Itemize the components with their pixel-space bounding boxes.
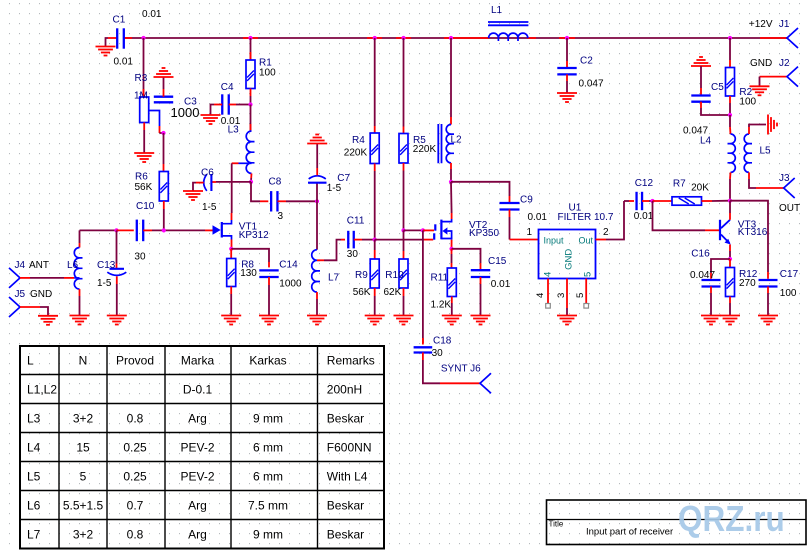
inductor L2 (446, 125, 454, 163)
svg-text:0.01: 0.01 (491, 279, 511, 290)
svg-text:0.01: 0.01 (114, 57, 134, 68)
wire L7 bottom (316, 292, 318, 299)
capacitor C14 (259, 269, 278, 271)
svg-text:C14: C14 (279, 260, 298, 271)
svg-text:KP312: KP312 (239, 230, 269, 241)
node C5-R2-L4 (728, 113, 732, 117)
svg-text:56K: 56K (135, 182, 153, 193)
transistor VT1 arrow (213, 225, 221, 234)
capacitor C13 (trimmer) (110, 268, 125, 270)
node R4 bus (373, 36, 377, 40)
svg-text:100: 100 (739, 97, 756, 108)
svg-text:0.01: 0.01 (634, 211, 654, 222)
svg-text:With L4: With L4 (327, 469, 368, 483)
capacitor C1 (116, 28, 118, 48)
connector J2 sym (787, 67, 798, 87)
node VT2 source (449, 247, 453, 251)
wire source to C14 (231, 249, 269, 262)
svg-text:Provod: Provod (116, 353, 154, 367)
connector J1 (787, 28, 798, 48)
svg-text:30: 30 (134, 252, 146, 263)
svg-text:4: 4 (535, 293, 546, 298)
wire C4 right (229, 104, 236, 106)
svg-text:R9: R9 (355, 270, 368, 281)
wire R2 top (729, 38, 731, 60)
svg-text:100: 100 (780, 288, 797, 299)
capacitor C11 (347, 231, 349, 249)
ground C6 (183, 191, 203, 200)
svg-text:KP350: KP350 (469, 228, 499, 239)
capacitor C16 (702, 279, 721, 281)
wire C6 left (196, 182, 204, 184)
wire R9 bottom (374, 288, 376, 296)
svg-text:0.8: 0.8 (127, 527, 144, 541)
svg-text:J4: J4 (15, 260, 26, 271)
svg-text:R4: R4 (352, 135, 365, 146)
transistor VT3 (719, 220, 721, 240)
wire C7 top (316, 168, 318, 175)
capacitor C15 (471, 269, 490, 271)
wire R3 bottom (143, 123, 145, 131)
resistor R9 (370, 259, 379, 288)
svg-text:0.7: 0.7 (127, 498, 144, 512)
svg-text:L4: L4 (700, 136, 712, 147)
node L6-C13-C10 (114, 228, 118, 232)
wire R11 bottom (451, 297, 453, 304)
node R7-L4-C17 (728, 199, 732, 203)
svg-text:1-5: 1-5 (327, 183, 342, 194)
svg-text:C2: C2 (580, 56, 593, 67)
inductor L7 (312, 250, 320, 292)
svg-text:C15: C15 (488, 256, 507, 267)
svg-text:L4: L4 (27, 440, 41, 454)
svg-text:L7: L7 (328, 273, 340, 284)
node C12-R7-VT3 (650, 199, 654, 203)
svg-text:L7: L7 (27, 527, 41, 541)
node R6 gate (162, 228, 166, 232)
capacitor C8 (270, 191, 272, 211)
node R1-C4-L3 (248, 102, 252, 106)
wire R3 top (143, 38, 145, 97)
wire R7 right (702, 200, 713, 202)
wire C3 top (163, 89, 165, 97)
svg-text:C12: C12 (635, 178, 654, 189)
svg-text:L5: L5 (760, 146, 772, 157)
wire C5 top (700, 66, 702, 88)
wire C13 stem (116, 230, 118, 263)
svg-text:Arg: Arg (188, 498, 207, 512)
svg-text:C5: C5 (711, 82, 724, 93)
svg-text:+12V: +12V (749, 19, 773, 30)
svg-text:C18: C18 (433, 336, 452, 347)
wire R11 stem (451, 249, 453, 254)
svg-text:L5: L5 (27, 469, 41, 483)
svg-text:3+2: 3+2 (73, 527, 94, 541)
svg-text:100: 100 (259, 68, 276, 79)
wire R4 top (374, 38, 376, 126)
wire R9 stem (374, 240, 376, 250)
resistor R1 (246, 60, 255, 89)
svg-text:L: L (27, 353, 34, 367)
wire source to C15 (452, 249, 481, 263)
svg-text:R7: R7 (673, 179, 686, 190)
wire R12 stem (729, 259, 731, 268)
svg-text:D-0.1: D-0.1 (183, 382, 213, 396)
wire R1 top (250, 38, 252, 60)
svg-text:R11: R11 (431, 273, 449, 284)
svg-text:J2: J2 (779, 58, 790, 69)
ground R12 (720, 316, 740, 325)
svg-text:J3: J3 (779, 173, 790, 184)
svg-text:C6: C6 (201, 168, 214, 179)
wire R2 bottom (729, 96, 731, 103)
node L2 bus (449, 36, 453, 40)
ground C2 (557, 93, 577, 102)
node VT1 source (229, 247, 233, 251)
ground R10 (394, 316, 414, 325)
ground R11 (442, 316, 462, 325)
svg-text:56K: 56K (353, 287, 371, 298)
svg-text:L1: L1 (491, 5, 503, 16)
wire J4 to L6 (20, 277, 30, 279)
svg-text:Out: Out (579, 236, 594, 246)
capacitor C7 (trimmer) (308, 182, 327, 184)
svg-text:2: 2 (603, 227, 609, 238)
svg-text:0.25: 0.25 (123, 440, 147, 454)
svg-text:L1,L2: L1,L2 (27, 382, 57, 396)
wire L4 bottom (729, 172, 732, 179)
svg-text:0.25: 0.25 (123, 469, 147, 483)
wire L6 top (79, 230, 81, 243)
resistor R5 (399, 134, 408, 164)
connector J6 (480, 373, 491, 393)
svg-text:30: 30 (347, 249, 359, 260)
svg-text:1-5: 1-5 (202, 202, 217, 213)
wire R8 bottom (230, 287, 232, 295)
wire U1 pin1 (510, 239, 539, 241)
resistor R6 (159, 172, 168, 202)
svg-text:R6: R6 (135, 172, 148, 183)
svg-text:GND: GND (750, 58, 772, 69)
wire C10 left lead (117, 229, 134, 231)
wire C10 right (143, 229, 152, 231)
wire C14 bottom (268, 277, 270, 285)
wire G2 lead (423, 229, 434, 231)
wire node to C8 row (251, 182, 260, 201)
table coil data grid (20, 346, 384, 549)
wire VT1 drain (231, 213, 233, 220)
inductor L5 (744, 134, 752, 172)
svg-text:7.5 mm: 7.5 mm (248, 498, 288, 512)
svg-text:20K: 20K (691, 183, 709, 194)
svg-text:L6: L6 (27, 498, 41, 512)
wire VT1 source (231, 240, 233, 249)
svg-text:220K: 220K (344, 148, 368, 159)
wire L7 tap (317, 259, 324, 261)
ground J5 (38, 316, 58, 325)
svg-text:5.5+1.5: 5.5+1.5 (63, 498, 104, 512)
svg-text:0.047: 0.047 (690, 270, 715, 281)
svg-text:KT316: KT316 (738, 227, 768, 238)
capacitor C10 (136, 220, 138, 242)
svg-text:0.047: 0.047 (579, 79, 604, 90)
svg-text:Beskar: Beskar (327, 527, 364, 541)
ground C13 (107, 316, 127, 325)
node L3-C6-C8 (249, 180, 253, 184)
ic U1 box (539, 230, 596, 279)
wire C13 bottom (116, 276, 118, 284)
svg-text:Beskar: Beskar (327, 498, 364, 512)
wire C5 bottom (700, 102, 702, 108)
svg-text:C10: C10 (136, 201, 155, 212)
node R5 bus (401, 36, 405, 40)
wire C8 right (278, 200, 287, 202)
wire J2 (760, 76, 788, 78)
wire gate row L6-C10 (80, 229, 117, 231)
svg-text:Title: Title (549, 520, 564, 529)
svg-text:C8: C8 (269, 177, 282, 188)
svg-text:130: 130 (240, 268, 257, 279)
ground R8 (221, 316, 241, 325)
svg-text:4: 4 (543, 272, 554, 277)
svg-text:Arg: Arg (188, 527, 207, 541)
wire C2 bottom (566, 74, 568, 81)
wire C1 ground stub (108, 37, 117, 39)
wire L6 bottom (79, 289, 81, 296)
inductor L4 (728, 134, 736, 172)
svg-text:Marka: Marka (181, 353, 215, 367)
svg-text:Karkas: Karkas (249, 353, 286, 367)
svg-text:Input: Input (544, 236, 565, 246)
ground L7 (307, 316, 327, 325)
ground C17 (758, 316, 778, 325)
title block box (547, 500, 807, 545)
node C1-R3 (141, 36, 145, 40)
wire C6 row (216, 181, 251, 183)
capacitor C2 (557, 67, 576, 69)
ground C4 (201, 115, 221, 124)
wire R10 stem (403, 230, 405, 251)
resistor R3 (pot) (140, 97, 149, 123)
svg-text:C1: C1 (113, 15, 126, 26)
svg-text:L2: L2 (451, 135, 463, 146)
node VT3 emitter (728, 257, 732, 261)
resistor R7 (672, 197, 702, 205)
wire R5 top (403, 38, 405, 127)
svg-text:N: N (79, 353, 88, 367)
svg-text:L3: L3 (228, 125, 240, 136)
svg-text:270: 270 (739, 278, 756, 289)
svg-text:200nH: 200nH (327, 382, 362, 396)
wire L5 top (748, 127, 750, 134)
ground L6 (70, 316, 90, 325)
svg-text:0.8: 0.8 (127, 411, 144, 425)
ground U1 (557, 316, 577, 325)
wire VT2 source (451, 240, 453, 249)
wire C18 to J6 (422, 353, 424, 361)
connector J5 (9, 297, 20, 317)
svg-text:6 mm: 6 mm (253, 440, 283, 454)
wire node to R6 (163, 133, 165, 164)
svg-text:OUT: OUT (779, 203, 800, 214)
wire C17 bottom (767, 287, 769, 294)
transistor VT2 body (440, 220, 442, 240)
svg-text:QRZ.ru: QRZ.ru (678, 499, 785, 539)
node R2 bus (728, 36, 732, 40)
svg-text:Arg: Arg (188, 411, 207, 425)
wire C2 stem (566, 38, 568, 61)
svg-text:FILTER 10.7: FILTER 10.7 (558, 212, 614, 223)
svg-text:5: 5 (80, 469, 87, 483)
transistor VT1 body (221, 222, 223, 238)
terminal pin4 (546, 304, 551, 309)
svg-text:1000: 1000 (171, 105, 200, 120)
wire R7 left (653, 200, 673, 202)
resistor R2 (726, 68, 735, 97)
wire C15 bottom (480, 277, 482, 284)
svg-text:1-5: 1-5 (97, 278, 112, 289)
node C2 bus (565, 36, 569, 40)
wire R3 wiper to node (159, 126, 161, 133)
wire L4 top (729, 115, 731, 127)
ground J2 (750, 86, 770, 95)
wire U1 pin5 (585, 279, 587, 304)
svg-text:Remarks: Remarks (327, 353, 375, 367)
connector J3 (784, 178, 795, 198)
wire R4 bottom (374, 164, 376, 172)
svg-text:C11: C11 (347, 216, 365, 227)
svg-text:0.01: 0.01 (528, 212, 548, 223)
svg-text:C13: C13 (97, 260, 116, 271)
wire C16 bottom (710, 287, 712, 294)
wire R1 bottom (250, 89, 252, 97)
svg-text:GND: GND (563, 249, 574, 270)
connector J4 (9, 268, 20, 288)
node L2-C9-VT2 (449, 180, 453, 184)
wire VT3 emitter (729, 245, 731, 252)
wire drain stem (450, 182, 453, 213)
inductor L1 (489, 33, 528, 41)
node C3-R6 (161, 131, 165, 135)
wire L7 top (316, 201, 318, 249)
svg-text:1.2K: 1.2K (431, 300, 452, 311)
node G2-C18 (421, 228, 425, 232)
svg-text:F600NN: F600NN (327, 440, 372, 454)
core L2 (438, 124, 441, 163)
wire +12V top bus (125, 37, 788, 39)
capacitor C6 (trimmer) (210, 174, 212, 191)
svg-text:GND: GND (30, 289, 52, 300)
svg-text:L6: L6 (67, 260, 79, 271)
capacitor C4 (221, 94, 223, 114)
svg-text:C9: C9 (520, 195, 533, 206)
wire VT3 collector (729, 213, 731, 220)
wire to C17 (730, 201, 768, 272)
wire L2 top (450, 38, 452, 117)
svg-text:J1: J1 (779, 19, 790, 30)
svg-text:1000: 1000 (279, 279, 302, 290)
ground C1 (96, 47, 116, 56)
svg-text:3: 3 (556, 293, 567, 298)
node C11-R4-R9 (373, 238, 377, 242)
svg-text:1M: 1M (134, 91, 148, 102)
node C7-C8-L7 (315, 199, 319, 203)
capacitor C18 (414, 346, 433, 348)
svg-text:9 mm: 9 mm (253, 527, 283, 541)
wire base row (653, 201, 706, 230)
wire C11 right (354, 239, 362, 241)
capacitor C9 (500, 202, 520, 204)
wire L3 top (250, 105, 252, 132)
terminal pin5 (584, 304, 589, 309)
svg-text:Beskar: Beskar (327, 411, 364, 425)
svg-text:C16: C16 (691, 249, 710, 260)
wire J5 to ground (20, 306, 40, 308)
node R5-R10-G2 (401, 228, 405, 232)
wire emitter to C16 (711, 259, 730, 273)
svg-text:3: 3 (278, 211, 284, 222)
ground C5 (up) (691, 57, 711, 66)
capacitor C12 (635, 192, 637, 210)
svg-text:15: 15 (76, 440, 90, 454)
ground C15 (471, 316, 491, 325)
inductor L3 (246, 131, 254, 173)
wire L3 tap (239, 162, 252, 164)
wire R5 bottom (403, 163, 405, 171)
svg-text:C17: C17 (780, 269, 799, 280)
svg-text:5: 5 (575, 293, 586, 298)
wire C9 bottom (509, 210, 511, 218)
node R1 bus (248, 36, 252, 40)
svg-text:R3: R3 (135, 73, 148, 84)
svg-text:J5: J5 (15, 289, 26, 300)
svg-text:0.01: 0.01 (142, 9, 162, 20)
svg-text:5: 5 (582, 272, 593, 277)
wire gate1 row (375, 239, 424, 241)
capacitor C3 (154, 96, 173, 98)
resistor R8 (227, 259, 236, 287)
svg-text:Input part of receiver: Input part of receiver (586, 527, 673, 538)
svg-text:L3: L3 (27, 411, 41, 425)
wire C4 left (214, 104, 222, 106)
svg-text:PEV-2: PEV-2 (180, 440, 214, 454)
inductor L6 (74, 247, 82, 289)
svg-text:SYNT J6: SYNT J6 (441, 364, 481, 375)
svg-text:C4: C4 (221, 82, 234, 93)
wire R10 bottom (403, 288, 405, 296)
wire C7 stem (316, 183, 318, 201)
wire U1 pin3 (566, 279, 568, 309)
ground L5 (right) (768, 115, 777, 135)
resistor R12 (726, 268, 735, 297)
resistor R4 (370, 133, 379, 164)
ground R3 (134, 153, 154, 162)
svg-text:3+2: 3+2 (73, 411, 94, 425)
wire U1 pin4 (547, 279, 549, 304)
resistor R11 (447, 268, 456, 297)
wire gate2 stub (404, 229, 423, 231)
wire source to R8 (230, 249, 232, 259)
svg-text:6 mm: 6 mm (253, 469, 283, 483)
svg-text:R10: R10 (385, 270, 404, 281)
svg-text:9 mm: 9 mm (253, 411, 283, 425)
wire R6 bottom (163, 201, 165, 209)
wire R12 bottom (729, 297, 731, 304)
wire C9 top (451, 182, 510, 196)
wire U1 pin2 (596, 239, 607, 241)
wire L3 bottom (250, 174, 252, 179)
ground C3 (up) (154, 68, 174, 77)
